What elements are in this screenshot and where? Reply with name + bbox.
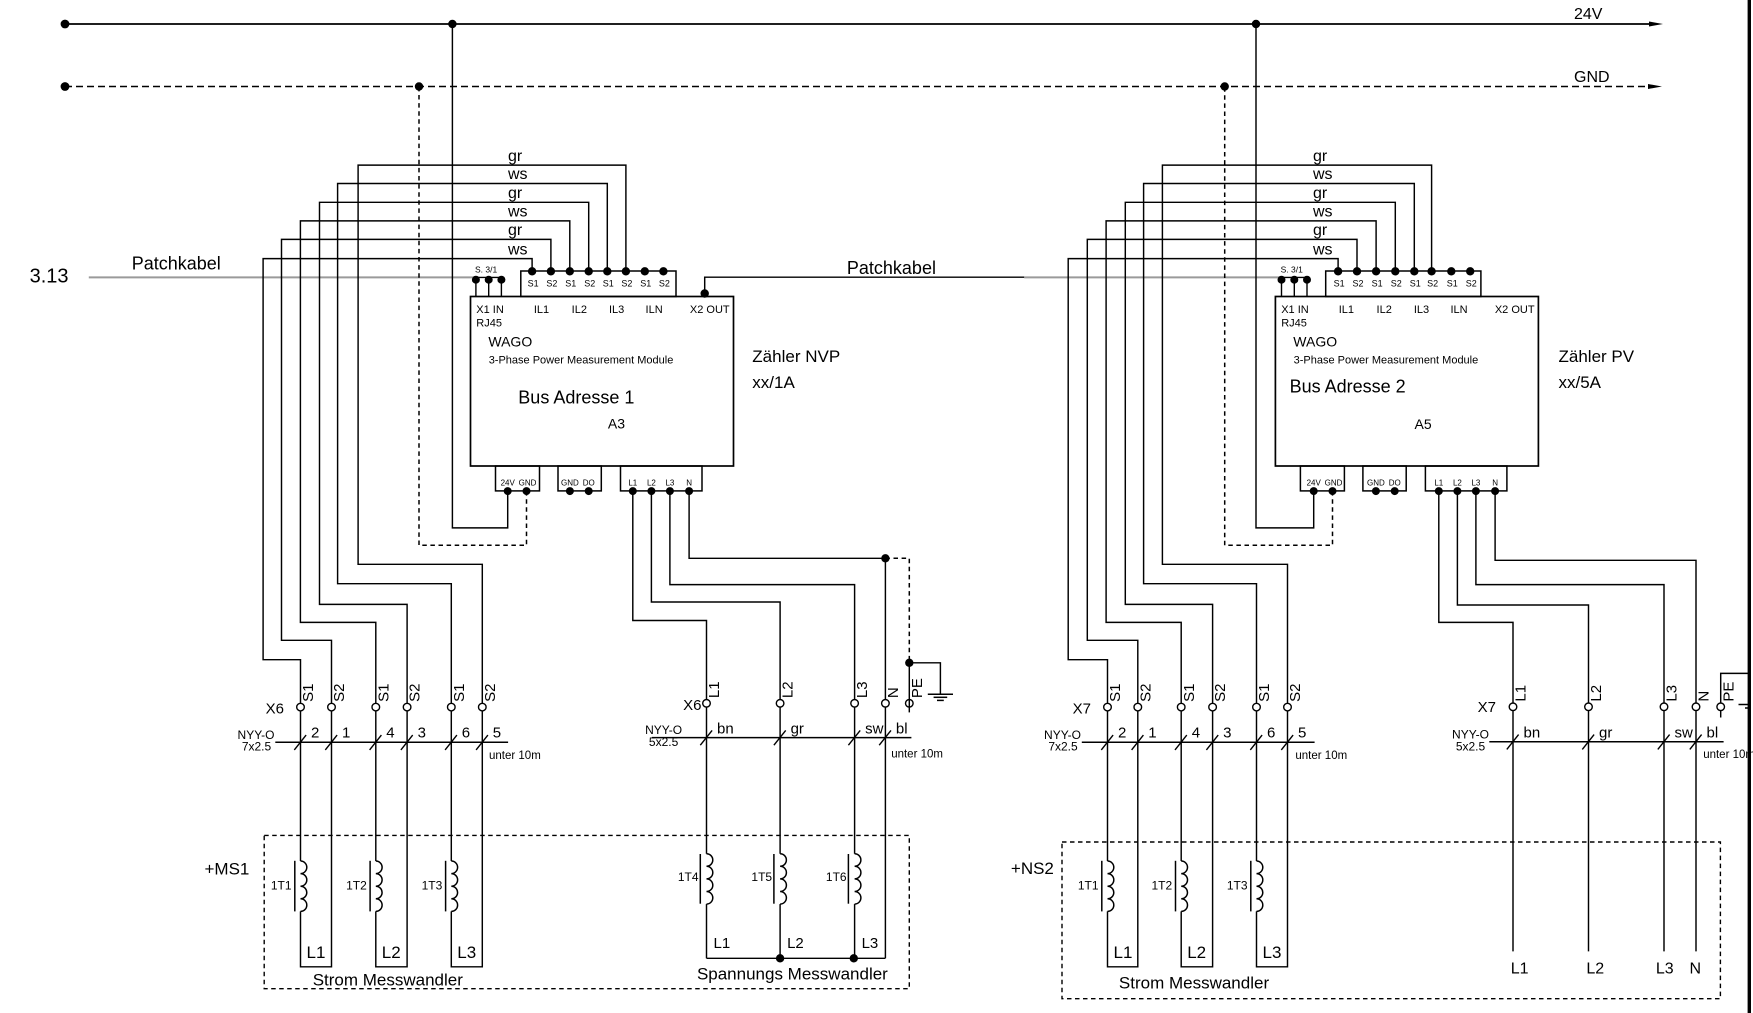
wire L2 mains tail <box>1588 711 1590 952</box>
svg-text:S2: S2 <box>659 278 670 288</box>
wire S1(IL3) to terminal 5 <box>1144 184 1415 704</box>
conductor mark 6 <box>1250 735 1262 750</box>
svg-text:Zähler NVP: Zähler NVP <box>752 347 840 366</box>
svg-text:PE: PE <box>1720 682 1737 702</box>
svg-text:ws: ws <box>507 204 528 221</box>
current transformer 1T3 <box>1256 711 1258 861</box>
svg-text:L2: L2 <box>382 943 401 962</box>
svg-text:A5: A5 <box>1415 416 1432 432</box>
svg-text:unter 10m: unter 10m <box>1703 749 1753 761</box>
pin S.3/1-2 <box>1293 277 1295 296</box>
svg-text:gr: gr <box>791 720 804 737</box>
conductor mark sw <box>1658 735 1670 750</box>
svg-text:DO: DO <box>1389 479 1401 488</box>
svg-text:2: 2 <box>311 725 319 742</box>
svg-text:gr: gr <box>1599 725 1612 742</box>
svg-text:N: N <box>1492 479 1498 488</box>
svg-text:sw: sw <box>865 720 884 737</box>
wire L1 mains tail <box>1512 711 1514 952</box>
svg-text:N: N <box>686 479 692 488</box>
svg-text:5: 5 <box>1298 725 1306 742</box>
enclosure +NS2 (dashed box) <box>1062 842 1720 999</box>
svg-text:X1 IN: X1 IN <box>1281 304 1309 316</box>
svg-text:Bus Adresse 2: Bus Adresse 2 <box>1290 377 1406 397</box>
svg-text:Zähler PV: Zähler PV <box>1559 347 1635 366</box>
power terminal box 24V/GND <box>1300 466 1344 491</box>
terminal box GND/DO <box>1363 466 1406 491</box>
pin S.3/1-3 <box>500 277 502 296</box>
wire secondary loop L3 <box>1257 711 1288 967</box>
svg-text:L1: L1 <box>1434 479 1443 488</box>
wire S1(IL1) to terminal 1 <box>263 259 532 704</box>
svg-text:24V: 24V <box>501 479 516 488</box>
current transformer 1T1 <box>1107 711 1109 861</box>
svg-text:gr: gr <box>508 185 523 202</box>
svg-text:Strom Messwandler: Strom Messwandler <box>313 971 464 990</box>
junction 24V/A3 feed <box>448 20 456 28</box>
wire secondary loop L3 <box>451 711 482 967</box>
svg-text:L1: L1 <box>307 943 326 962</box>
svg-text:5x2.5: 5x2.5 <box>649 735 679 749</box>
conductor mark gr <box>1582 735 1594 750</box>
wire GND feed to A3 (dashed) <box>419 87 527 546</box>
pin S.3/1-1 <box>475 277 477 296</box>
terminal X7:S2 <box>1284 703 1292 711</box>
svg-text:bl: bl <box>1707 725 1719 742</box>
junction GND/A3 feed <box>415 82 423 90</box>
conductor mark 5 <box>476 735 488 750</box>
svg-text:bn: bn <box>1524 725 1541 742</box>
pin S1 <box>1334 267 1342 275</box>
svg-text:S2: S2 <box>1137 684 1154 702</box>
conductor mark 2 <box>1101 735 1113 750</box>
svg-text:L3: L3 <box>457 943 476 962</box>
svg-text:GND: GND <box>1325 479 1343 488</box>
conductor mark 5 <box>1281 735 1293 750</box>
terminal X6:S2 <box>403 703 411 711</box>
wire 24V feed to A3 <box>452 24 507 528</box>
svg-text:X6: X6 <box>683 697 701 714</box>
pin S1 <box>641 267 649 275</box>
current transformer 1T2 <box>1180 711 1182 861</box>
svg-text:X1 IN: X1 IN <box>476 304 504 316</box>
wire S2(IL2) to terminal 4 <box>1125 202 1395 703</box>
svg-text:3: 3 <box>418 725 426 742</box>
current transformer 1T2 <box>375 711 377 861</box>
svg-text:3: 3 <box>1223 725 1231 742</box>
svg-text:S. 3/1: S. 3/1 <box>475 265 497 275</box>
pin S.3/1-3 <box>1306 277 1308 296</box>
svg-text:IL2: IL2 <box>572 304 587 316</box>
svg-text:S1: S1 <box>1181 684 1198 702</box>
24V power rail <box>65 23 1650 25</box>
svg-text:1T3: 1T3 <box>422 878 443 892</box>
wire N to X6:N <box>689 491 885 699</box>
wire N to X7:N <box>1495 491 1696 703</box>
svg-text:S2: S2 <box>1287 684 1304 702</box>
svg-text:S1: S1 <box>1256 684 1273 702</box>
wire L1 to X7:L1 <box>1439 491 1513 703</box>
pin S.3/1-2 <box>488 277 490 296</box>
svg-text:S1: S1 <box>1372 278 1383 288</box>
svg-text:S1: S1 <box>1447 278 1458 288</box>
wire S1(IL3) to terminal 5 <box>338 184 608 704</box>
svg-text:ws: ws <box>507 166 528 183</box>
wire secondary loop L2 <box>376 711 407 967</box>
wire L1 to X6:L1 <box>633 491 707 699</box>
power terminal box 24V/GND <box>496 466 540 491</box>
svg-text:2: 2 <box>1118 725 1126 742</box>
svg-text:N: N <box>885 687 902 698</box>
GND rail (dashed) <box>65 86 1649 88</box>
pin S1 <box>1372 267 1380 275</box>
pin S2 <box>622 267 630 275</box>
current transformer 1T3 <box>450 711 452 861</box>
svg-text:S2: S2 <box>621 278 632 288</box>
pin S2 <box>1391 267 1399 275</box>
svg-text:xx/5A: xx/5A <box>1559 373 1602 392</box>
conductor mark 1 <box>325 735 337 750</box>
svg-text:unter 10m: unter 10m <box>489 750 541 762</box>
svg-text:Strom Messwandler: Strom Messwandler <box>1119 974 1270 993</box>
conductor mark gr <box>774 730 786 745</box>
svg-text:GND: GND <box>519 479 537 488</box>
ground (earth symbol) <box>928 693 953 695</box>
WAGO module A5: 3-Phase Power Measurement Module <box>1275 297 1538 467</box>
terminal X7:L1 <box>1509 703 1517 711</box>
wire S2(IL2) to terminal 4 <box>320 202 589 703</box>
svg-text:IL3: IL3 <box>609 304 624 316</box>
svg-text:ws: ws <box>1312 241 1333 258</box>
terminal X7:N <box>1692 703 1700 711</box>
conductor mark bl <box>1690 735 1702 750</box>
conductor mark bn <box>1507 735 1519 750</box>
svg-text:24V: 24V <box>1307 479 1322 488</box>
wire secondary loop L1 <box>301 711 332 967</box>
wire S2(IL1) to terminal 2 <box>1087 239 1357 703</box>
svg-text:ILN: ILN <box>1450 304 1467 316</box>
wire secondary loop L2 <box>1181 711 1212 967</box>
wire S2(IL3) to terminal 6 <box>358 165 626 703</box>
ground (earth on border) <box>1739 704 1752 706</box>
wire PE drop <box>908 663 910 713</box>
svg-text:X7: X7 <box>1478 699 1496 716</box>
wire earth branch <box>909 663 940 694</box>
svg-text:DO: DO <box>583 479 595 488</box>
terminal X6:L2 <box>776 700 784 708</box>
svg-text:L3: L3 <box>862 935 879 952</box>
svg-text:1T5: 1T5 <box>751 870 772 884</box>
wire PE stub <box>1720 711 1722 718</box>
wire N return <box>884 707 886 958</box>
svg-text:IL3: IL3 <box>1414 304 1429 316</box>
terminal X6:S2 <box>328 703 336 711</box>
svg-text:L1: L1 <box>714 935 731 952</box>
svg-text:S2: S2 <box>331 684 348 702</box>
svg-text:GND: GND <box>1367 479 1385 488</box>
svg-text:bl: bl <box>896 720 908 737</box>
svg-text:GND: GND <box>561 479 579 488</box>
svg-text:3-Phase Power Measurement Modu: 3-Phase Power Measurement Module <box>1294 354 1479 366</box>
pin S2 <box>1427 267 1435 275</box>
terminal strip S1/S2 (A3) <box>521 271 676 297</box>
svg-text:L3: L3 <box>665 479 674 488</box>
svg-text:4: 4 <box>386 725 394 742</box>
wire 24V feed to A5 <box>1256 24 1314 528</box>
svg-text:S1: S1 <box>300 684 317 702</box>
cable NYY-O 5x2.5 <box>652 737 912 739</box>
svg-text:X6: X6 <box>266 701 284 718</box>
terminal X7:PE <box>1717 703 1725 711</box>
svg-text:1T2: 1T2 <box>346 878 367 892</box>
svg-text:L2: L2 <box>787 935 804 952</box>
cable NYY-O 7x2.5 <box>1082 741 1315 743</box>
conductor mark bl <box>879 730 891 745</box>
svg-text:N: N <box>1696 691 1713 702</box>
voltage terminal box L1 L2 L3 N <box>621 466 703 491</box>
svg-text:PE: PE <box>909 678 926 698</box>
svg-text:S2: S2 <box>1212 684 1229 702</box>
svg-text:S1: S1 <box>1410 278 1421 288</box>
svg-text:1T1: 1T1 <box>271 878 292 892</box>
svg-text:ws: ws <box>507 241 528 258</box>
wire PE from border <box>1721 673 1751 703</box>
terminal X6:S1 <box>297 703 305 711</box>
terminal X7:S2 <box>1134 703 1142 711</box>
svg-text:S1: S1 <box>603 278 614 288</box>
svg-text:6: 6 <box>462 725 470 742</box>
svg-text:3-Phase Power Measurement Modu: 3-Phase Power Measurement Module <box>489 354 674 366</box>
svg-text:5x2.5: 5x2.5 <box>1456 739 1486 753</box>
terminal X6:N <box>882 700 890 708</box>
junction PE <box>905 659 913 667</box>
svg-text:L3: L3 <box>1656 960 1674 977</box>
svg-text:unter 10m: unter 10m <box>891 749 943 761</box>
conductor mark 6 <box>445 735 457 750</box>
svg-text:Patchkabel: Patchkabel <box>847 258 936 278</box>
svg-text:A3: A3 <box>608 416 625 432</box>
voltage transformer 1T6 <box>854 707 856 854</box>
svg-text:L3: L3 <box>1664 685 1681 702</box>
page border right <box>1748 0 1751 1013</box>
svg-text:xx/1A: xx/1A <box>752 373 795 392</box>
wire VT common rail <box>707 957 886 959</box>
svg-text:S2: S2 <box>1352 278 1363 288</box>
svg-text:S1: S1 <box>1107 684 1124 702</box>
svg-text:L2: L2 <box>1187 943 1206 962</box>
svg-text:S2: S2 <box>482 684 499 702</box>
terminal box GND/DO <box>558 466 601 491</box>
svg-text:gr: gr <box>508 148 523 165</box>
junction rail/L3 <box>850 954 858 962</box>
wire secondary loop L1 <box>1108 711 1138 967</box>
svg-text:RJ45: RJ45 <box>1281 318 1307 330</box>
pin S1 <box>1447 267 1455 275</box>
svg-text:L2: L2 <box>1588 685 1605 702</box>
svg-text:unter 10m: unter 10m <box>1295 750 1347 762</box>
conductor mark 4 <box>1175 735 1187 750</box>
svg-text:5: 5 <box>493 725 501 742</box>
svg-text:S2: S2 <box>1391 278 1402 288</box>
svg-text:S2: S2 <box>584 278 595 288</box>
pin S2 <box>659 267 667 275</box>
svg-text:gr: gr <box>1313 222 1328 239</box>
svg-text:ws: ws <box>1312 166 1333 183</box>
wire S1(IL2) to terminal 3 <box>1106 221 1376 703</box>
terminal X6:S2 <box>479 703 487 711</box>
wire L3 to X6:L3 <box>670 491 855 699</box>
terminal X6:PE <box>906 700 914 708</box>
wire S2(IL1) to terminal 2 <box>282 239 551 703</box>
svg-text:+NS2: +NS2 <box>1011 859 1054 878</box>
junction rail/L2 <box>776 954 784 962</box>
svg-text:Patchkabel: Patchkabel <box>132 254 221 274</box>
svg-text:S. 3/1: S. 3/1 <box>1281 265 1303 275</box>
svg-text:L2: L2 <box>1586 960 1604 977</box>
svg-text:gr: gr <box>508 222 523 239</box>
svg-text:bn: bn <box>717 720 734 737</box>
svg-text:S1: S1 <box>528 278 539 288</box>
svg-text:1: 1 <box>1148 725 1156 742</box>
pin S2 <box>1466 267 1474 275</box>
svg-text:ILN: ILN <box>646 304 663 316</box>
svg-text:S1: S1 <box>1334 278 1345 288</box>
terminal X7:L3 <box>1660 703 1668 711</box>
wire L2 to X7:L2 <box>1457 491 1588 703</box>
svg-text:1T4: 1T4 <box>678 870 699 884</box>
svg-text:sw: sw <box>1675 725 1694 742</box>
voltage terminal box L1 L2 L3 N <box>1425 466 1507 491</box>
terminal X7:L2 <box>1585 703 1593 711</box>
svg-text:X2 OUT: X2 OUT <box>1495 304 1535 316</box>
svg-text:GND: GND <box>1574 69 1610 86</box>
pin S1 <box>566 267 574 275</box>
svg-text:L1: L1 <box>1114 943 1133 962</box>
svg-text:7x2.5: 7x2.5 <box>1048 740 1078 754</box>
svg-text:1T6: 1T6 <box>826 870 847 884</box>
svg-text:S2: S2 <box>1466 278 1477 288</box>
terminal X7:S1 <box>1253 703 1261 711</box>
svg-text:X7: X7 <box>1073 701 1091 718</box>
wire S1(IL1) to terminal 1 <box>1068 259 1338 704</box>
svg-text:S1: S1 <box>640 278 651 288</box>
svg-text:S1: S1 <box>451 684 468 702</box>
junction GND/A5 feed <box>1221 82 1229 90</box>
wire patch cable 3.13 to A3 X1 IN (grey) <box>89 276 476 278</box>
conductor mark sw <box>848 730 860 745</box>
svg-text:L3: L3 <box>1263 943 1282 962</box>
svg-text:L1: L1 <box>1511 960 1529 977</box>
pin S2 <box>1353 267 1361 275</box>
terminal X6:S1 <box>372 703 380 711</box>
svg-text:X2 OUT: X2 OUT <box>690 304 730 316</box>
junction 24V/A5 feed <box>1252 20 1260 28</box>
svg-text:L1: L1 <box>706 681 723 698</box>
svg-text:gr: gr <box>1313 185 1328 202</box>
svg-text:Spannungs Messwandler: Spannungs Messwandler <box>697 965 888 984</box>
pin S1 <box>603 267 611 275</box>
svg-text:L2: L2 <box>647 479 656 488</box>
terminal X6:L3 <box>851 700 859 708</box>
wire A3 X2 OUT <box>705 277 1024 296</box>
svg-text:RJ45: RJ45 <box>476 318 502 330</box>
wire GND feed to A5 (dashed) <box>1225 87 1333 546</box>
svg-text:L1: L1 <box>1513 685 1530 702</box>
svg-text:gr: gr <box>1313 148 1328 165</box>
terminal strip S1/S2 (A5) <box>1326 271 1481 297</box>
wire N mains tail <box>1695 711 1697 952</box>
svg-text:4: 4 <box>1192 725 1200 742</box>
svg-text:1T2: 1T2 <box>1152 878 1173 892</box>
conductor mark 3 <box>1206 735 1218 750</box>
svg-text:1T1: 1T1 <box>1078 878 1099 892</box>
svg-text:S2: S2 <box>546 278 557 288</box>
conductor mark 1 <box>1132 735 1144 750</box>
svg-text:S2: S2 <box>1427 278 1438 288</box>
svg-text:L3: L3 <box>854 681 871 698</box>
svg-text:IL1: IL1 <box>534 304 549 316</box>
wire VT L3 down <box>854 904 856 958</box>
svg-text:1T3: 1T3 <box>1227 878 1248 892</box>
svg-text:L2: L2 <box>780 681 797 698</box>
cable NYY-O 7x2.5 <box>275 741 508 743</box>
wire L3 mains tail <box>1663 711 1665 952</box>
wire patch cable A3 X2 OUT to A5 X1 IN (grey) <box>1024 276 1281 278</box>
wire PE link (dashed) <box>885 558 909 663</box>
svg-text:N: N <box>1690 960 1702 977</box>
wire S2(IL3) to terminal 6 <box>1162 165 1431 703</box>
pin S2 <box>585 267 593 275</box>
svg-text:S2: S2 <box>407 684 424 702</box>
wire L3 to X7:L3 <box>1476 491 1664 703</box>
pin S.3/1-1 <box>1281 277 1283 296</box>
conductor mark bn <box>700 730 712 745</box>
svg-text:WAGO: WAGO <box>1293 334 1337 350</box>
voltage transformer 1T4 <box>706 707 708 854</box>
svg-text:3.13: 3.13 <box>30 266 69 288</box>
svg-text:L2: L2 <box>1453 479 1462 488</box>
svg-text:1: 1 <box>342 725 350 742</box>
svg-text:S1: S1 <box>565 278 576 288</box>
svg-text:WAGO: WAGO <box>488 334 532 350</box>
svg-text:+MS1: +MS1 <box>205 860 250 879</box>
terminal X6:L1 <box>703 700 711 708</box>
svg-text:7x2.5: 7x2.5 <box>242 740 272 754</box>
conductor mark 2 <box>294 735 306 750</box>
svg-text:Bus Adresse 1: Bus Adresse 1 <box>518 387 634 407</box>
svg-text:IL2: IL2 <box>1377 304 1392 316</box>
svg-text:24V: 24V <box>1574 6 1603 23</box>
pin S1 <box>528 267 536 275</box>
enclosure +MS1 (dashed box) <box>264 835 909 988</box>
pin S2 <box>547 267 555 275</box>
terminal X6:S1 <box>448 703 456 711</box>
svg-text:6: 6 <box>1267 725 1275 742</box>
svg-text:S1: S1 <box>375 684 392 702</box>
svg-text:IL1: IL1 <box>1339 304 1354 316</box>
conductor mark 3 <box>401 735 413 750</box>
pin S1 <box>1410 267 1418 275</box>
wire L2 to X6:L2 <box>651 491 780 699</box>
terminal X7:S1 <box>1104 703 1112 711</box>
cable NYY-O 5x2.5 (right) <box>1489 741 1723 743</box>
svg-text:L3: L3 <box>1471 479 1480 488</box>
conductor mark 4 <box>370 735 382 750</box>
svg-text:ws: ws <box>1312 204 1333 221</box>
WAGO module A3: 3-Phase Power Measurement Module <box>471 297 734 467</box>
wire S1(IL2) to terminal 3 <box>300 221 569 703</box>
voltage transformer 1T5 <box>779 707 781 854</box>
